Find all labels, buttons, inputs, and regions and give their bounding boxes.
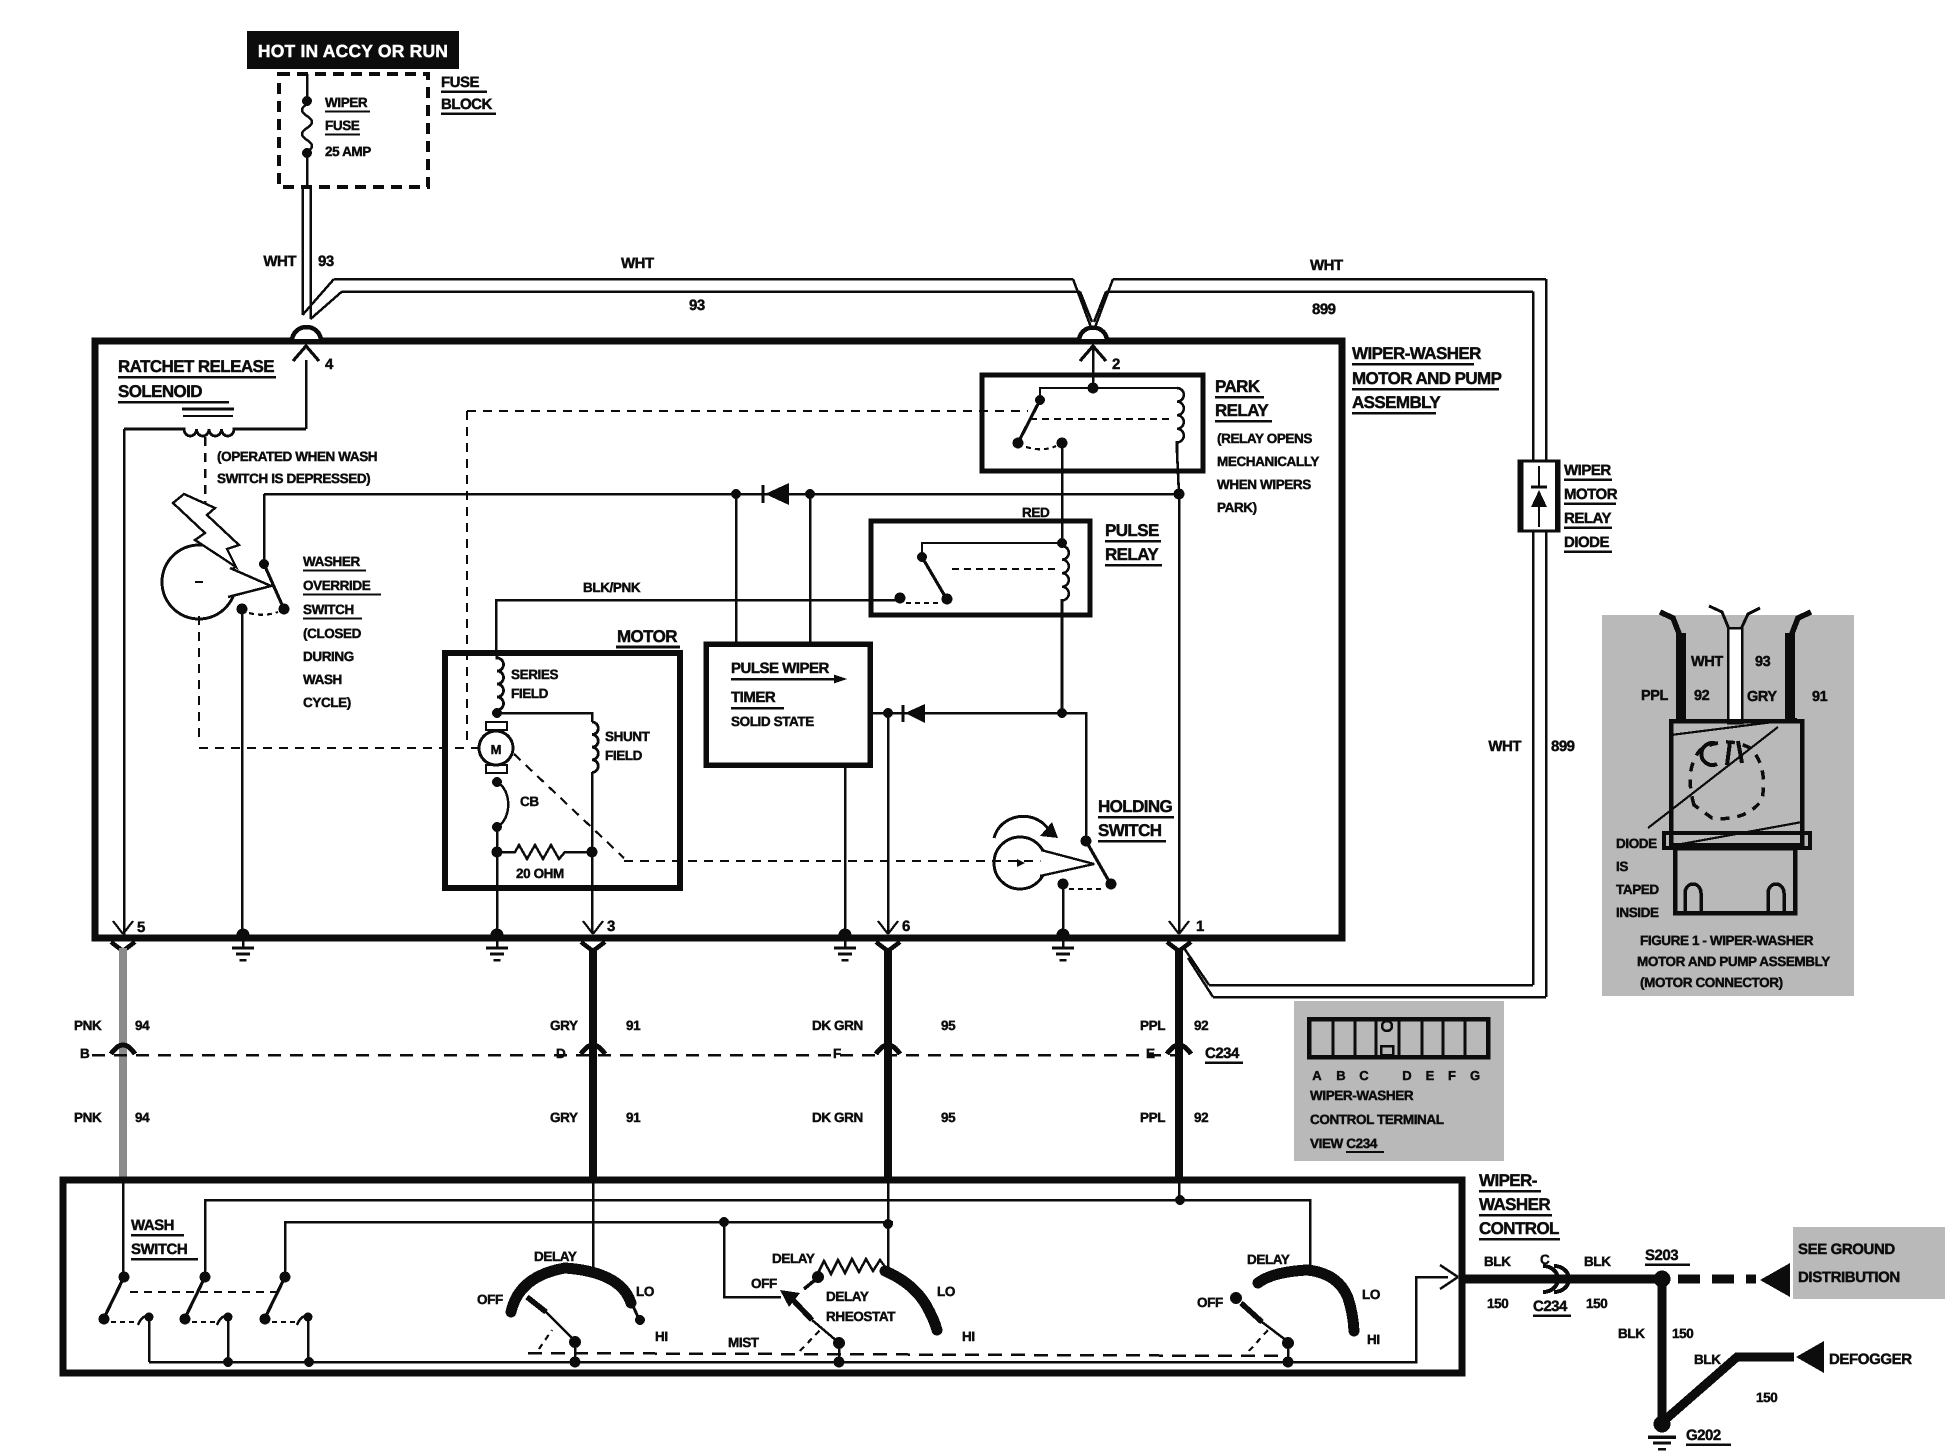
svg-text:25 AMP: 25 AMP	[325, 144, 371, 159]
inline connector C234 on BLK wire	[1543, 1266, 1569, 1292]
delay rheostat lead dot	[812, 1271, 824, 1283]
wash switch 1 contact dash	[111, 1321, 135, 1323]
holding switch arm dot	[1106, 879, 1117, 890]
motor armature M	[479, 731, 513, 765]
wire WHT 93 vertical hollow run	[303, 187, 311, 319]
wire DK GRN into delay2	[887, 1181, 890, 1268]
delay wiper 3 arm	[1241, 1303, 1262, 1322]
terminal 2 arrow	[1080, 346, 1106, 361]
svg-text:MOTOR AND PUMP: MOTOR AND PUMP	[1352, 369, 1502, 388]
svg-text:RED: RED	[1022, 505, 1050, 520]
pulse relay mech dash	[952, 568, 1055, 570]
mist dash line	[528, 1353, 1285, 1356]
figure1 wire PPL 92	[1676, 633, 1686, 723]
wash switch 2 arm	[185, 1277, 205, 1318]
svg-text:93: 93	[318, 253, 334, 270]
svg-text:CYCLE): CYCLE)	[303, 695, 351, 710]
svg-text:GRY: GRY	[550, 1110, 578, 1125]
svg-text:150: 150	[1487, 1296, 1508, 1311]
svg-text:PNK: PNK	[74, 1110, 102, 1125]
resistor 20 ohm	[497, 845, 592, 859]
svg-text:(CLOSED: (CLOSED	[303, 626, 362, 641]
terminal 1 chevron	[1167, 942, 1191, 951]
node pulse relay coil top	[1057, 538, 1067, 548]
delay wiper 2 arrow	[780, 1290, 800, 1307]
holding switch arm	[1086, 841, 1110, 883]
off-page triangle see ground	[1760, 1263, 1790, 1297]
svg-text:WIPER: WIPER	[1564, 462, 1611, 479]
mechanical link armature dashes	[199, 411, 1078, 861]
svg-text:WHT: WHT	[263, 253, 296, 270]
wire WHT 93 horizontal hollow run	[334, 279, 1080, 292]
svg-text:OFF: OFF	[1197, 1295, 1223, 1310]
svg-text:92: 92	[1694, 688, 1710, 704]
park relay top bus	[1040, 388, 1177, 399]
pulse relay contact dash	[906, 602, 941, 604]
delay wiper 3 arc	[1258, 1270, 1354, 1331]
ground dot timer	[839, 929, 852, 942]
wash switch 2 contact dash	[192, 1321, 216, 1323]
wire timer to ground	[844, 765, 847, 932]
diode CR3 on timer wire	[902, 705, 905, 722]
wire PNK into switch 1	[122, 1181, 125, 1277]
svg-text:5: 5	[137, 919, 145, 936]
node park relay coil junction	[1174, 489, 1185, 500]
svg-text:WASH: WASH	[303, 672, 342, 687]
wash switch gang dash	[130, 1291, 278, 1293]
wire PNK 94 gray run	[119, 948, 127, 1181]
svg-text:WHT: WHT	[1691, 654, 1723, 670]
delay wiper 2 arc	[885, 1271, 937, 1330]
ground G202	[1654, 1416, 1671, 1433]
wire B switch3 to DK GRN	[285, 1222, 893, 1277]
wire motor to ground	[496, 852, 499, 932]
svg-text:B: B	[80, 1046, 90, 1061]
wash switch 2 pivot	[200, 1272, 211, 1283]
circuit breaker CB	[497, 782, 508, 827]
svg-text:RELAY: RELAY	[1215, 401, 1269, 420]
svg-text:G202: G202	[1686, 1427, 1721, 1444]
svg-text:150: 150	[1672, 1326, 1693, 1341]
svg-text:WASH: WASH	[131, 1217, 174, 1234]
holding switch contact dash	[1069, 888, 1104, 890]
node pulse coil bottom	[1057, 708, 1067, 718]
washer override switch contact dash	[249, 612, 278, 615]
svg-text:SWITCH: SWITCH	[131, 1241, 187, 1258]
svg-text:SHUNT: SHUNT	[605, 729, 651, 744]
see ground distribution gray panel	[1793, 1227, 1945, 1299]
svg-text:LO: LO	[937, 1284, 955, 1299]
node series-shunt	[492, 708, 502, 718]
wire timer feed left	[735, 494, 738, 647]
svg-text:DEFOGGER: DEFOGGER	[1829, 1351, 1912, 1368]
svg-text:(MOTOR CONNECTOR): (MOTOR CONNECTOR)	[1640, 975, 1783, 990]
svg-text:PARK: PARK	[1215, 377, 1261, 396]
svg-text:HI: HI	[1367, 1332, 1380, 1347]
connector B bump	[111, 1045, 135, 1054]
wire BLK/PNK motor to pulse relay	[496, 600, 898, 653]
node CB bottom	[492, 822, 502, 832]
svg-text:E: E	[1426, 1068, 1435, 1083]
svg-text:150: 150	[1756, 1390, 1777, 1405]
wash switch 1 pivot	[119, 1272, 130, 1283]
svg-text:BLK/PNK: BLK/PNK	[583, 580, 641, 595]
svg-text:TIMER: TIMER	[731, 689, 776, 706]
ground symbol timer	[844, 941, 847, 948]
svg-text:150: 150	[1586, 1296, 1607, 1311]
svg-text:6: 6	[902, 918, 910, 935]
node timer feed left	[731, 489, 741, 499]
wash switch 3 contact dash	[272, 1321, 296, 1323]
figure1 wire WHT 93	[1728, 628, 1742, 723]
wire fuse bottom lead	[306, 156, 309, 187]
svg-text:92: 92	[1194, 1018, 1208, 1033]
svg-text:E: E	[1146, 1046, 1155, 1061]
svg-text:SWITCH: SWITCH	[303, 602, 354, 617]
wash switch 2 hook contact	[217, 1316, 228, 1362]
svg-text:ASSEMBLY: ASSEMBLY	[1352, 393, 1441, 412]
wire DK GRN 95 thick run	[884, 948, 892, 1181]
node resistor left	[492, 847, 503, 858]
svg-text:899: 899	[1551, 738, 1575, 755]
svg-text:CB: CB	[520, 794, 539, 809]
wire override switch to ground	[241, 609, 244, 933]
svg-text:DELAY: DELAY	[534, 1249, 577, 1264]
svg-text:93: 93	[1755, 654, 1771, 670]
svg-text:A: A	[1312, 1068, 1322, 1083]
svg-text:D: D	[1402, 1068, 1411, 1083]
svg-text:PPL: PPL	[1140, 1110, 1165, 1125]
terminal 1 arrow	[1169, 921, 1189, 934]
hot feed label box	[247, 31, 459, 69]
solenoid L1 coil	[124, 429, 306, 436]
svg-text:HOLDING: HOLDING	[1098, 797, 1173, 816]
svg-text:PNK: PNK	[74, 1018, 102, 1033]
figure1 C mark	[1701, 743, 1717, 765]
park relay fixed contact	[1057, 438, 1068, 449]
svg-text:CONTROL TERMINAL: CONTROL TERMINAL	[1310, 1112, 1444, 1127]
ground symbol holding switch	[1062, 941, 1065, 948]
svg-text:DK GRN: DK GRN	[812, 1018, 863, 1033]
holding switch cam pointer	[1040, 850, 1094, 876]
holding switch cam circle	[994, 837, 1046, 889]
svg-text:RHEOSTAT: RHEOSTAT	[826, 1309, 896, 1324]
wash switch 3 hook contact	[297, 1316, 308, 1362]
wire PPL 92 thick run	[1175, 948, 1183, 1181]
wire A switch2 to delay3	[205, 1200, 1310, 1277]
pulse relay arm dot	[942, 594, 953, 605]
solenoid L1 core bars	[182, 408, 234, 411]
wire solenoid to terminal 5	[123, 429, 126, 935]
pulse relay fixed contact	[895, 593, 906, 604]
svg-text:G: G	[1470, 1068, 1480, 1083]
terminal 5 arrow	[113, 921, 133, 934]
pulse relay pivot dot	[917, 552, 927, 562]
svg-text:SERIES: SERIES	[511, 667, 559, 682]
svg-text:DELAY: DELAY	[772, 1251, 815, 1266]
node armature bottom	[492, 777, 502, 787]
wash lever bolt arrow	[173, 494, 239, 567]
svg-text:DIODE: DIODE	[1616, 836, 1657, 851]
pulse wiper timer box	[706, 644, 870, 765]
svg-text:DIODE: DIODE	[1564, 534, 1610, 551]
svg-text:DURING: DURING	[303, 649, 354, 664]
ground dot left	[237, 929, 250, 942]
svg-text:BLK: BLK	[1484, 1254, 1511, 1269]
wiper motor relay diode box	[1519, 461, 1559, 531]
svg-text:DELAY: DELAY	[1247, 1252, 1290, 1267]
park relay coil	[1177, 388, 1184, 494]
wire to terminal 6	[887, 713, 890, 932]
wire WHT 899 rise from terminal 2	[1094, 279, 1113, 330]
washer override switch fixed contact	[237, 604, 248, 615]
pulse relay top bus	[922, 543, 1062, 556]
ground dot holding switch	[1057, 929, 1070, 942]
wash switch 1 hook contact	[138, 1316, 149, 1362]
connector E bump	[1167, 1045, 1191, 1054]
connector F bump	[876, 1045, 900, 1054]
svg-text:M: M	[491, 742, 502, 757]
svg-text:MECHANICALLY: MECHANICALLY	[1217, 454, 1319, 469]
svg-text:1: 1	[1196, 918, 1204, 935]
terminal 6 chevron	[876, 942, 900, 951]
SECTION-C2	[264, 494, 1179, 653]
motor armature brushes	[486, 722, 507, 730]
node terminal 6 branch	[883, 708, 893, 718]
terminal view key features	[1382, 1021, 1392, 1031]
fuse terminal dot bottom	[302, 148, 312, 158]
svg-text:91: 91	[626, 1110, 641, 1125]
bus junction dots	[223, 1357, 233, 1367]
wire override to park relay coil node	[264, 493, 1179, 496]
svg-text:WIPER-: WIPER-	[1479, 1171, 1537, 1190]
wire WHT 899 horizontal hollow run	[1106, 279, 1546, 292]
svg-text:F: F	[1448, 1068, 1456, 1083]
node resistor right	[587, 847, 598, 858]
wire BLK 150 S203 to G202	[1658, 1279, 1667, 1420]
mechanical link solenoid to washer pump	[204, 437, 207, 543]
svg-text:GRY: GRY	[1747, 689, 1777, 705]
svg-text:94: 94	[135, 1110, 150, 1125]
svg-text:WASHER: WASHER	[1479, 1195, 1550, 1214]
terminal 6 arrow	[878, 921, 898, 934]
svg-text:RATCHET RELEASE: RATCHET RELEASE	[118, 357, 274, 376]
figure1 connector inner lines	[1648, 719, 1802, 845]
node wire B DK GRN	[883, 1219, 893, 1229]
park relay box	[982, 375, 1203, 471]
series field coil	[497, 653, 504, 712]
holding switch fixed contact	[1058, 879, 1069, 890]
svg-text:SOLID STATE: SOLID STATE	[731, 714, 814, 729]
svg-text:D: D	[556, 1046, 566, 1061]
wire RED park to pulse relay	[1061, 443, 1064, 544]
washer override switch arm	[264, 564, 283, 607]
wire series to shunt	[497, 713, 592, 722]
terminal view gray panel	[1294, 1001, 1504, 1161]
park relay mech dash	[1030, 418, 1170, 420]
wire solenoid to terminal 4	[305, 360, 308, 429]
wire holding switch to ground	[1062, 884, 1065, 932]
svg-text:VIEW C234: VIEW C234	[1310, 1136, 1378, 1151]
svg-text:HOT IN ACCY OR RUN: HOT IN ACCY OR RUN	[258, 41, 448, 61]
wire timer to holding switch	[870, 713, 1086, 841]
svg-text:RELAY: RELAY	[1105, 545, 1159, 564]
wire WHT 899 below diode hollow run	[1533, 531, 1546, 997]
svg-text:F: F	[833, 1046, 841, 1061]
wire BLK 150 to S203	[1462, 1275, 1662, 1284]
svg-text:95: 95	[941, 1018, 956, 1033]
svg-text:C: C	[1359, 1068, 1369, 1083]
wire PPL into wire A	[1178, 1181, 1181, 1200]
svg-text:4: 4	[325, 356, 334, 373]
figure1 taped diode dashed outline	[1690, 742, 1763, 819]
svg-text:MOTOR: MOTOR	[617, 627, 677, 646]
svg-text:OVERRIDE: OVERRIDE	[303, 578, 371, 593]
park relay arm	[1019, 400, 1040, 441]
svg-text:C: C	[1540, 1252, 1550, 1267]
holding switch top contact	[1081, 836, 1092, 847]
svg-text:(RELAY OPENS: (RELAY OPENS	[1217, 431, 1312, 446]
svg-text:DELAY: DELAY	[826, 1289, 869, 1304]
off-page triangle defogger	[1796, 1341, 1824, 1373]
control bottom bus	[149, 1277, 1448, 1362]
svg-text:WIPER: WIPER	[325, 95, 368, 110]
connector C234 dashed line	[92, 1054, 1176, 1057]
svg-text:SEE GROUND: SEE GROUND	[1798, 1241, 1895, 1258]
svg-text:MOTOR AND PUMP ASSEMBLY: MOTOR AND PUMP ASSEMBLY	[1637, 954, 1830, 969]
svg-text:OFF: OFF	[477, 1292, 503, 1307]
splice S203	[1654, 1271, 1671, 1288]
wire override switch to BLK-PNK run	[263, 494, 266, 564]
wire GRY 91 thick run	[589, 948, 597, 1181]
svg-text:C234: C234	[1533, 1298, 1568, 1315]
svg-text:BLK: BLK	[1584, 1254, 1611, 1269]
svg-text:SWITCH: SWITCH	[1098, 821, 1162, 840]
delay 2 mech dash	[800, 1330, 820, 1351]
terminal 3 arrow	[583, 921, 603, 934]
wire park node to terminal 1	[1178, 494, 1181, 932]
mechanical dash park relay to solenoid link	[467, 410, 1028, 412]
motor box	[445, 653, 680, 888]
delay rheostat element	[818, 1259, 886, 1274]
svg-text:INSIDE: INSIDE	[1616, 905, 1659, 920]
svg-text:GRY: GRY	[550, 1018, 578, 1033]
node wire B delay2 branch	[719, 1217, 729, 1227]
svg-text:WHT: WHT	[1310, 257, 1343, 274]
ground symbol motor	[496, 941, 499, 948]
park relay arm dot	[1013, 438, 1024, 449]
pulse relay coil	[1062, 546, 1069, 713]
svg-text:BLOCK: BLOCK	[441, 96, 492, 113]
svg-text:PPL: PPL	[1140, 1018, 1165, 1033]
terminal view connector body	[1309, 1019, 1488, 1057]
wire CB to resistor node	[496, 827, 499, 852]
wiper-washer motor and pump assembly box	[95, 341, 1342, 938]
ground symbol left	[242, 941, 245, 948]
delay wiper 3 off dot	[1230, 1292, 1242, 1304]
diode CR1 symbol	[1531, 490, 1547, 507]
svg-text:MIST: MIST	[728, 1335, 760, 1350]
svg-text:PULSE WIPER: PULSE WIPER	[731, 660, 830, 677]
svg-text:92: 92	[1194, 1110, 1208, 1125]
svg-text:WHEN WIPERS: WHEN WIPERS	[1217, 477, 1311, 492]
wire fuse top lead	[306, 74, 309, 100]
fuse block dashed box	[279, 74, 428, 187]
svg-text:HI: HI	[962, 1329, 975, 1344]
svg-text:PARK): PARK)	[1217, 500, 1257, 515]
svg-text:B: B	[1336, 1068, 1345, 1083]
dashed BLK to ground distribution	[1678, 1275, 1756, 1284]
diode CR2 on feed wire	[762, 485, 765, 503]
svg-text:WHT: WHT	[1488, 738, 1521, 755]
figure1 connector mid bar	[1664, 833, 1810, 848]
svg-text:RELAY: RELAY	[1564, 510, 1611, 527]
washer override switch top contact	[259, 559, 269, 569]
svg-text:S203: S203	[1645, 1247, 1678, 1264]
svg-text:SOLENOID: SOLENOID	[118, 382, 202, 401]
wiper-washer control box	[63, 1180, 1462, 1373]
svg-text:OFF: OFF	[751, 1276, 777, 1291]
svg-text:3: 3	[607, 918, 615, 935]
svg-text:(OPERATED WHEN WASH: (OPERATED WHEN WASH	[217, 449, 377, 464]
svg-text:94: 94	[135, 1018, 150, 1033]
delay wiper 1 arm	[527, 1297, 546, 1312]
svg-text:2: 2	[1112, 356, 1120, 373]
node timer feed right	[805, 489, 815, 499]
fuse F1 element	[302, 104, 312, 152]
pulse relay arm	[922, 557, 946, 598]
svg-text:C234: C234	[1205, 1045, 1240, 1062]
svg-text:LO: LO	[636, 1284, 654, 1299]
svg-text:93: 93	[689, 297, 705, 314]
svg-text:IS: IS	[1616, 859, 1628, 874]
park relay pivot dot	[1035, 395, 1045, 405]
node park relay feed	[1088, 383, 1099, 394]
svg-text:DK GRN: DK GRN	[812, 1110, 863, 1125]
svg-text:FIELD: FIELD	[511, 686, 549, 701]
figure1 connector upper body	[1671, 721, 1802, 845]
figure1 connector lower body	[1675, 848, 1795, 913]
fuse terminal dot top	[302, 96, 312, 106]
delay wiper 1 arc	[511, 1268, 631, 1312]
svg-text:FIGURE 1 - WIPER-WASHER: FIGURE 1 - WIPER-WASHER	[1640, 933, 1814, 948]
svg-text:91: 91	[626, 1018, 641, 1033]
washer override switch arm dot	[279, 604, 290, 615]
svg-text:WHT: WHT	[621, 255, 654, 272]
svg-text:MOTOR: MOTOR	[1564, 486, 1618, 503]
svg-text:WIPER-WASHER: WIPER-WASHER	[1352, 344, 1481, 363]
wire WHT 93 kink to horizontal	[303, 279, 343, 319]
wire WHT 899 vertical hollow run right	[1533, 279, 1546, 462]
svg-text:20 OHM: 20 OHM	[516, 866, 564, 881]
svg-text:WASHER: WASHER	[303, 554, 361, 569]
wire shunt node to terminal 3	[591, 852, 594, 932]
svg-text:FIELD: FIELD	[605, 748, 643, 763]
delay 1 mech dash	[539, 1330, 552, 1349]
svg-text:95: 95	[941, 1110, 956, 1125]
delay 3 mech dash	[1249, 1330, 1268, 1351]
terminal 4 connector bump	[292, 327, 321, 341]
holding switch rotation arrow	[994, 816, 1049, 838]
wash switch hook dots	[145, 1313, 154, 1322]
wire timer feed right	[809, 494, 812, 647]
svg-text:PULSE: PULSE	[1105, 521, 1159, 540]
shunt field coil	[592, 722, 598, 772]
svg-text:PPL: PPL	[1641, 688, 1669, 704]
svg-text:HI: HI	[655, 1329, 668, 1344]
ground dot motor	[491, 929, 504, 942]
connector D bump	[581, 1045, 605, 1054]
